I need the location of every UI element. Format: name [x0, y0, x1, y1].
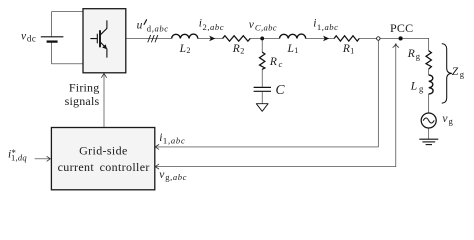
wire feedback i1 from node circle down and left: [155, 41, 378, 147]
wire R1 to grid corner: [359, 37, 428, 39]
arrowhead firing signals up: [102, 73, 107, 77]
capacitor C plates: [254, 87, 271, 91]
svg-text:R: R: [342, 43, 350, 55]
svg-text:1: 1: [350, 47, 354, 56]
svg-text:signals: signals: [65, 94, 100, 108]
svg-text:g: g: [449, 116, 454, 126]
svg-text:C: C: [276, 82, 286, 97]
wire R2 to L1 through node: [250, 37, 279, 39]
open ground triangle below C: [256, 104, 268, 112]
svg-text:g: g: [460, 69, 465, 79]
svg-text:L: L: [410, 80, 417, 92]
svg-text:Firing: Firing: [69, 81, 100, 95]
controller box: [51, 128, 154, 190]
ac source vg: [421, 113, 436, 128]
inductor L1: [280, 34, 306, 38]
wire Rc to capacitor: [261, 69, 263, 87]
svg-text:1: 1: [294, 46, 298, 55]
svg-text:u: u: [137, 20, 143, 32]
wire converter output: [126, 37, 172, 39]
resistor Rc vertical: [260, 52, 265, 69]
resistor Rg vertical: [426, 51, 431, 69]
svg-text:current controller: current controller: [58, 160, 150, 174]
svg-text:1,abc: 1,abc: [163, 135, 186, 145]
svg-text:v: v: [249, 19, 255, 31]
wire Lg to vg source: [428, 94, 430, 113]
svg-text:R: R: [232, 43, 240, 55]
svg-text:c: c: [279, 59, 283, 69]
curly brace Zg: [442, 44, 452, 104]
current arrow i1: [323, 36, 329, 42]
svg-text:Grid-side: Grid-side: [79, 143, 127, 157]
svg-text:PCC: PCC: [390, 21, 413, 35]
wire node to Rc: [261, 38, 263, 52]
wire i* input arrow line: [35, 158, 50, 160]
IGBT U1: [91, 21, 107, 57]
current arrow i2: [209, 36, 215, 42]
svg-text:v: v: [442, 113, 448, 125]
svg-text:2,abc: 2,abc: [203, 22, 225, 32]
node vC dot: [260, 37, 264, 41]
svg-text:2: 2: [186, 46, 190, 55]
open circle node (current tap): [377, 37, 380, 40]
battery vdc: [41, 37, 64, 42]
arrowhead i* input: [47, 156, 50, 161]
svg-text:1,abc: 1,abc: [317, 22, 339, 32]
sine wave inside vg: [423, 118, 434, 123]
wire dc top loop: [52, 12, 83, 37]
wire grid corner down to Rg: [428, 38, 430, 50]
svg-text:C,abc: C,abc: [255, 23, 277, 33]
PCC dot: [399, 36, 403, 40]
wire Rg to Lg: [428, 69, 430, 75]
three-phase slash marks: [148, 35, 158, 42]
IGBT emitter arrowhead: [102, 44, 107, 49]
arrowhead feedback i1 into box: [155, 145, 159, 150]
svg-text:R: R: [269, 56, 277, 68]
svg-text:dc: dc: [27, 33, 37, 43]
resistor R1: [334, 36, 359, 41]
wire feedback vg measurement down and left: [155, 44, 395, 167]
converter box: [83, 9, 126, 73]
svg-text:1,dq: 1,dq: [11, 153, 27, 163]
svg-text:g: g: [419, 84, 424, 94]
wire dc bottom loop: [52, 42, 83, 64]
svg-text:Z: Z: [452, 66, 459, 78]
svg-text:2: 2: [240, 47, 244, 56]
wire L1 to R1: [306, 37, 334, 39]
svg-text:L: L: [287, 43, 294, 55]
wire capacitor to ground triangle: [261, 92, 263, 104]
resistor R2: [223, 36, 251, 41]
svg-text:g,abc: g,abc: [165, 172, 187, 182]
svg-text:d,abc: d,abc: [147, 23, 169, 33]
wire vg source to ground: [428, 128, 430, 139]
arrowhead feedback vg into box: [155, 164, 159, 169]
ground under vg: [419, 139, 438, 144]
wire L2 to R2: [198, 37, 223, 39]
inductor Lg vertical: [429, 75, 433, 94]
svg-text:i: i: [199, 18, 202, 30]
inductor L2: [172, 34, 198, 38]
svg-text:g: g: [416, 51, 421, 61]
vg measurement up arrowhead: [393, 44, 399, 48]
wire firing signals up: [103, 75, 105, 128]
svg-text:R: R: [407, 48, 415, 60]
svg-text:L: L: [179, 43, 186, 55]
